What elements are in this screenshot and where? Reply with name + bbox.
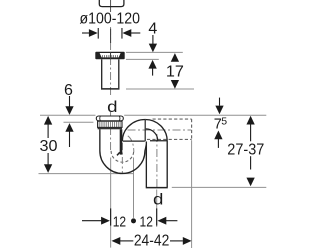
extension line V4 (hidden outlet end x=191.6) — [191, 140, 193, 248]
outlet pipe bottom edge — [146, 187, 168, 189]
hidden outlet (dashed) bottom — [147, 138, 192, 140]
dimension 17 — [171, 53, 179, 62]
sleeve flange (black) — [95, 52, 124, 59]
dimension 24-42 — [112, 237, 121, 245]
dip tube flare — [117, 152, 120, 155]
dip tube (inlet right wall, thick) — [120, 129, 123, 154]
svg-text:d: d — [107, 99, 117, 116]
reference line LA (flange top y=52.4) — [126, 51, 183, 53]
svg-text:ø100-120: ø100-120 — [80, 11, 141, 28]
inlet nut rim — [96, 116, 123, 121]
sleeve body — [102, 59, 119, 88]
inlet nut bottom band — [98, 127, 122, 129]
dimension 7.5 — [219, 98, 221, 106]
svg-text:5: 5 — [221, 115, 227, 127]
reference line LB (flange bottom y=59.4) — [126, 58, 159, 60]
svg-text:6: 6 — [64, 82, 73, 99]
outlet bend outer arc (right) — [145, 120, 167, 141]
hidden outlet (dashed) end cap — [191, 119, 193, 139]
centerline vertical outlet pipe x=156.9 — [156, 134, 158, 190]
flange centerline crossing — [110, 52, 112, 59]
outlet bend outer arc (left) — [122, 120, 145, 142]
nut rim end marks — [100, 116, 120, 120]
centerline trap bottom x=122.35 — [121, 143, 123, 174]
reference line LD (outlet pipe bottom y=187.3) — [172, 186, 266, 188]
svg-text:17: 17 — [166, 64, 184, 81]
outlet pipe joint seam — [150, 140, 167, 142]
centerline inlet x=110.55 — [110, 112, 112, 151]
extension line V2 (mid axis x=133.5) — [133, 158, 135, 218]
dimension 12-12 — [82, 220, 101, 222]
inlet pipe left wall merging into trap bowl — [100, 129, 146, 173]
trap body seam (horizontal) — [123, 140, 145, 142]
centerline flow curve into bowl — [128, 136, 134, 152]
reference line LC (sleeve bottom y=89) — [126, 88, 194, 90]
dimension 30 — [44, 116, 52, 125]
dimension ø100-120 — [82, 28, 140, 39]
funnel cup outline (top, cropped) — [99, 0, 124, 7]
sleeve flange funnel cavity — [100, 53, 121, 57]
outlet pipe left wall — [145, 142, 147, 188]
svg-text:12: 12 — [113, 213, 126, 230]
svg-text:24-42: 24-42 — [134, 232, 170, 249]
outlet bend inner arc — [146, 129, 158, 141]
reference line L1 (top rim level y=115.3) — [40, 114, 266, 116]
sleeve bottom edge — [101, 88, 120, 90]
centerline top assembly x=110.55 — [110, 0, 112, 12]
extension line V3 (outlet axis x=156.7) — [156, 190, 158, 227]
svg-text:4: 4 — [148, 20, 157, 37]
hidden outlet (dashed) top — [153, 118, 192, 120]
svg-text:30: 30 — [40, 138, 58, 155]
centerline horizontal outlet y=130 — [128, 129, 192, 131]
svg-text:d: d — [153, 192, 163, 209]
svg-text:12: 12 — [140, 213, 153, 230]
outlet pipe right wall — [166, 141, 168, 187]
outlet bend seam (vertical) — [144, 120, 146, 141]
svg-text:27-37: 27-37 — [227, 142, 264, 159]
reference line L2 (nut shoulder y=122.3) — [64, 121, 94, 123]
flange knurl ticks — [103, 55, 118, 57]
hidden inner weir arc (dashed) — [111, 151, 134, 162]
inlet nut knurl band — [98, 121, 122, 127]
centerline dim segment — [110, 29, 112, 43]
extension line V1 (inlet axis x=110.65) — [110, 158, 112, 248]
reference line L3 (trap bottom y=173.6) — [39, 173, 134, 175]
dimension 27-37 — [246, 116, 254, 125]
